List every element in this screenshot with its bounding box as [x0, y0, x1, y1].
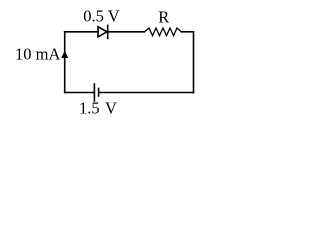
- svg-text:1.5 V: 1.5 V: [79, 99, 117, 118]
- svg-text:R: R: [158, 7, 169, 26]
- svg-text:10 mA: 10 mA: [15, 45, 60, 64]
- svg-text:0.5 V: 0.5 V: [83, 6, 119, 25]
